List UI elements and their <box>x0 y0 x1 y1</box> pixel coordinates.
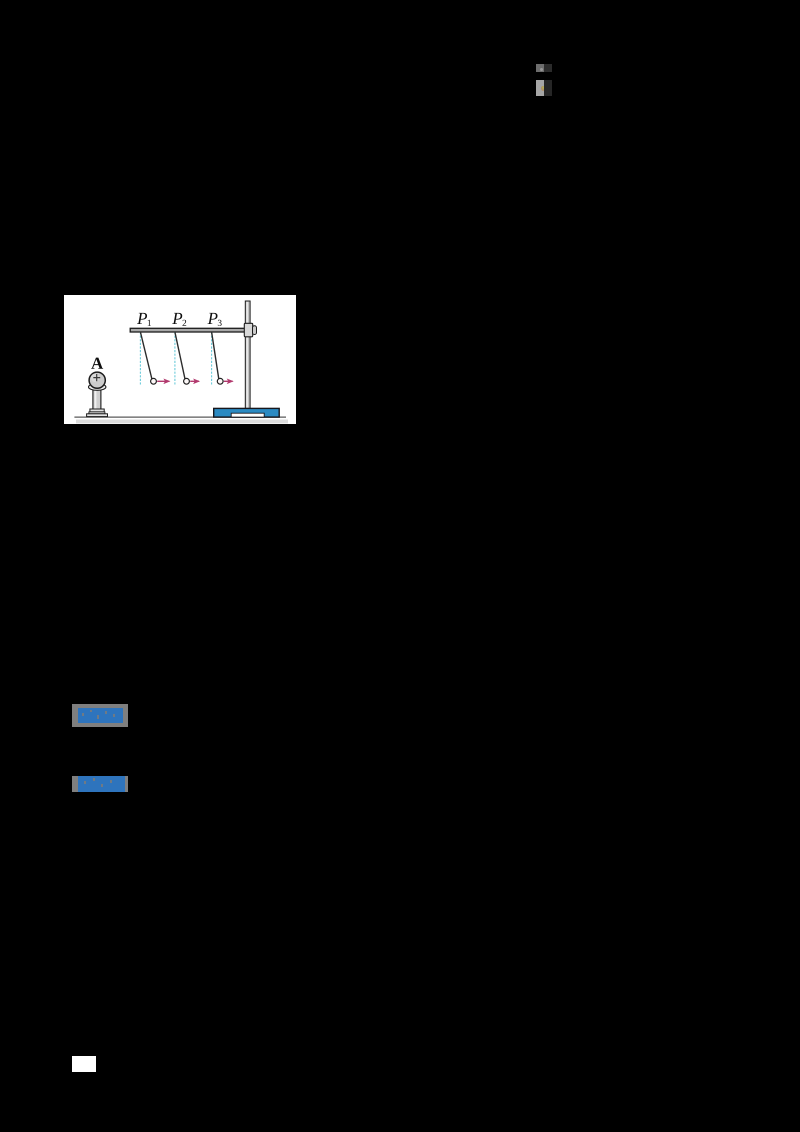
stand blue base <box>214 408 280 417</box>
horizontal bar <box>130 328 245 332</box>
label P2 <box>172 313 186 326</box>
pendulum 1 velocity arrow <box>157 380 169 382</box>
pendulum 1 rest dashed line <box>139 332 141 385</box>
floor line <box>74 416 286 418</box>
pendulum 3 rest dashed line <box>211 332 213 385</box>
pendulum 2 bob <box>184 378 190 384</box>
pendulum 2 string <box>175 332 185 379</box>
device A base layer 3 <box>87 414 108 417</box>
button 1: grey with blue label <box>72 704 128 727</box>
figure white background <box>64 295 296 424</box>
button 2: grey with blue label <box>72 776 128 792</box>
device A column <box>93 389 101 409</box>
stand pole <box>245 301 250 409</box>
top-right icon 1: light dot <box>540 68 543 71</box>
clamp knob <box>253 326 257 335</box>
pendulum 3 velocity arrow <box>224 380 233 382</box>
figure: pendulum resonance demo <box>64 295 296 424</box>
pendulum 2 rest dashed line <box>174 332 176 385</box>
label P1 <box>137 313 151 326</box>
label A <box>91 358 103 369</box>
bottom-left white box <box>72 1056 96 1072</box>
base white notch <box>231 413 264 417</box>
floor shadow strip <box>76 420 288 424</box>
pendulum 1 string <box>140 332 152 379</box>
top-right icon 1: dark square <box>544 64 552 72</box>
pendulum 2 velocity arrow <box>190 380 199 382</box>
top-right icon 2: dark rect <box>544 80 552 96</box>
device A base layer 1 <box>90 409 104 412</box>
device A sphere <box>89 372 105 388</box>
device A base layer 2 <box>89 412 105 414</box>
top-right icon 2: colored blob <box>541 86 545 92</box>
pendulum 3 string <box>212 332 219 379</box>
sphere shading <box>91 374 99 382</box>
pendulum 3 bob <box>217 378 223 384</box>
top-right icon 1: grey thumbnail <box>536 64 544 72</box>
label P3 <box>208 313 222 326</box>
sphere plus sign <box>93 374 100 381</box>
top-right icon 2: light thumbnail <box>536 80 544 96</box>
column highlight <box>95 390 97 409</box>
pendulum 1 bob <box>151 378 157 384</box>
device A collar <box>89 384 106 391</box>
clamp <box>244 323 252 337</box>
pole highlight <box>246 302 248 408</box>
